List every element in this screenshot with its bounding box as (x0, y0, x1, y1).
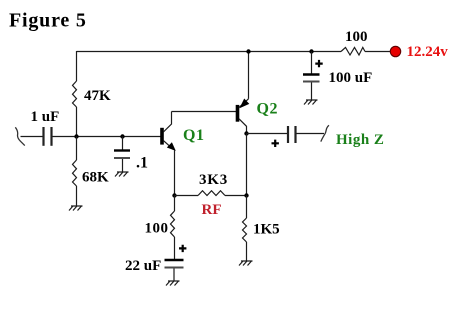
wire 100 resistor to 22uF (174, 237, 176, 259)
svg-text:1K5: 1K5 (253, 222, 280, 238)
wire output node down to feedback node (246, 134, 248, 196)
svg-text:1 uF: 1 uF (31, 109, 60, 125)
resistor 47K (73, 81, 112, 107)
capacitor 1 uF input coupling (31, 109, 60, 146)
transistor Q1 emitter lead with arrow (163, 141, 175, 151)
svg-text:Q2: Q2 (257, 101, 278, 118)
wire output cap to High Z terminal (297, 133, 325, 135)
capacitor output coupling (272, 126, 296, 147)
wire Q1 collector to Q2 base (172, 111, 237, 113)
wire top supply rail (77, 51, 391, 53)
svg-text:100: 100 (345, 29, 368, 45)
junction node output tap (244, 131, 248, 135)
wire emitter node to 100 resistor (174, 196, 176, 212)
transistor Q2 base bar (236, 101, 278, 122)
wire base line from cap to Q1 base (53, 136, 161, 138)
wire output node to output cap (247, 133, 288, 135)
supply terminal red dot (390, 46, 400, 56)
resistor 1K5 (243, 218, 280, 242)
svg-text:RF: RF (202, 202, 222, 218)
wire 100uF to ground (311, 83, 313, 101)
svg-text:High Z: High Z (336, 132, 384, 148)
wire Q1 emitter down to feedback node (174, 150, 176, 196)
capacitor .1 (114, 151, 148, 172)
wire 1K5 to ground (246, 242, 248, 261)
svg-text:3K3: 3K3 (199, 172, 228, 188)
label High Z (336, 132, 384, 148)
transistor Q2 collector lead (239, 119, 247, 134)
svg-text:Q1: Q1 (183, 127, 204, 144)
junction node bias divider (74, 134, 78, 138)
wire node to .1 cap (122, 137, 124, 151)
svg-text:47K: 47K (84, 88, 111, 104)
resistor 3K3 feedback RF (198, 172, 228, 218)
ground below 1K5 (239, 261, 253, 266)
transistor Q2 emitter lead with arrow (239, 99, 249, 109)
svg-text:100 uF: 100 uF (329, 70, 373, 86)
junction node feedback-1K5 (244, 193, 248, 197)
wire rail to 100uF (311, 52, 313, 75)
ground below 68K (69, 206, 83, 211)
ground below .1 cap (115, 172, 129, 177)
wire Q2 emitter up to rail (248, 52, 250, 99)
svg-text:100: 100 (145, 221, 169, 237)
wire node to 1K5 (246, 196, 248, 219)
wire left vertical from rail to 47K and node A (76, 51, 78, 137)
junction node bypass cap tap (120, 134, 124, 138)
title Figure 5 (9, 10, 87, 32)
svg-text:Figure 5: Figure 5 (9, 10, 87, 32)
svg-text:12.24v: 12.24v (407, 44, 449, 60)
ground below 22uF (166, 281, 180, 286)
wire 22uF to ground (173, 269, 175, 282)
capacitor 100 uF (303, 60, 372, 86)
junction node Q1 emitter (172, 193, 176, 197)
junction node 100uF on rail (309, 49, 313, 53)
transistor Q1 collector lead (163, 112, 171, 133)
wire 3K3 to output node (225, 195, 247, 197)
wire node to 68K (76, 137, 78, 161)
wire 68K to ground (76, 186, 78, 206)
svg-text:68K: 68K (82, 170, 109, 186)
wire input to coupling cap (21, 136, 44, 138)
resistor 68K (73, 160, 110, 186)
svg-text:.1: .1 (136, 155, 148, 172)
input terminal squiggle (15, 127, 24, 145)
output terminal squiggle (321, 125, 329, 141)
svg-text:22 uF: 22 uF (125, 258, 161, 274)
wire feedback node to 3K3 (175, 195, 199, 197)
capacitor 22 uF (125, 245, 186, 274)
resistor 100 emitter (145, 211, 175, 237)
resistor 100 supply (341, 29, 368, 55)
wire .1 cap to ground (122, 159, 124, 172)
transistor Q1 base bar (160, 127, 204, 145)
label 12.24v (407, 44, 449, 60)
junction node Q2 emitter on rail (246, 49, 250, 53)
ground below 100uF (304, 100, 318, 105)
